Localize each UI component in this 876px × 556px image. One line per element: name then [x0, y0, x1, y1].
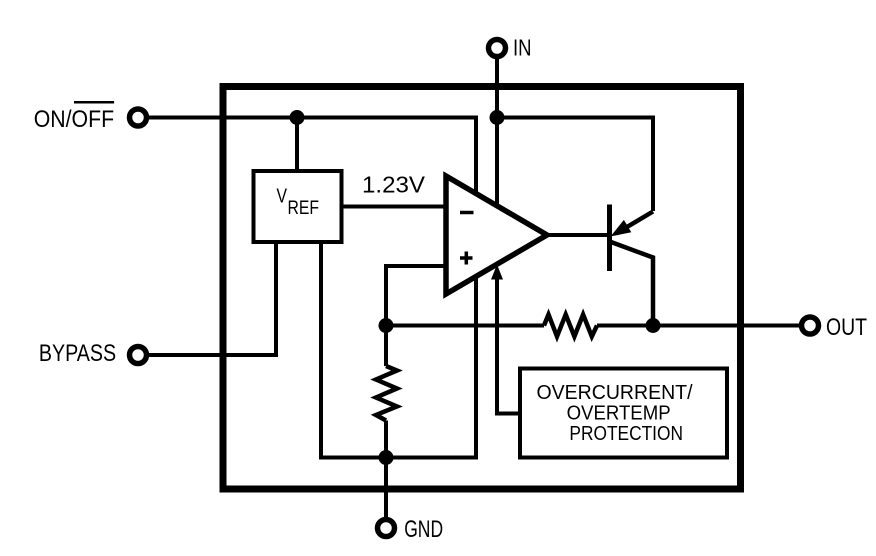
overline on OFF	[74, 101, 114, 104]
transistor Q1 base bar	[607, 205, 612, 272]
wire feedback node to resistor R2 top lead	[384, 326, 388, 367]
wire resistor R1 right lead to output node	[597, 324, 653, 328]
junction node ground	[379, 450, 394, 465]
outer IC boundary box	[223, 87, 741, 490]
svg-text:V: V	[277, 186, 288, 208]
terminal IN	[489, 40, 506, 57]
junction node at IN line	[490, 110, 505, 125]
transistor Q1 emitter arrowhead	[611, 220, 632, 237]
wire ground rail with risers to VREF lead and op-amp bottom	[321, 242, 476, 458]
op-amp U1 error amplifier	[446, 176, 547, 294]
junction node feedback	[379, 318, 394, 333]
terminal OUT	[802, 317, 819, 334]
wire IN node to transistor emitter	[497, 118, 653, 212]
transistor Q1 collector to output	[611, 242, 653, 326]
svg-text:ON/OFF: ON/OFF	[34, 106, 114, 133]
VREF block U2	[254, 171, 342, 242]
wire BYPASS to VREF bottom-left lead	[148, 242, 276, 355]
wire VREF output 1.23V to op-amp inverting input	[342, 205, 447, 209]
wire feedback node to resistor R1 left lead	[386, 324, 544, 328]
svg-text:1.23V: 1.23V	[362, 172, 426, 198]
wire resistor R2 bottom lead to ground node	[384, 421, 388, 458]
op-amp minus sign	[460, 211, 474, 215]
svg-text:REF: REF	[288, 198, 320, 219]
transistor Q1 PNP pass element	[547, 205, 653, 326]
svg-text:PROTECTION: PROTECTION	[569, 422, 683, 445]
wire op-amp noninverting input from feedback node	[386, 266, 446, 326]
arrow from protection block into op-amp	[491, 265, 503, 280]
wire ground node to GND terminal	[384, 458, 388, 518]
wire output node to OUT terminal	[653, 324, 800, 328]
svg-text:IN: IN	[513, 35, 532, 61]
protection block	[520, 369, 727, 458]
svg-text:BYPASS: BYPASS	[39, 340, 116, 367]
junction node output	[646, 318, 661, 333]
svg-text:OVERCURRENT/: OVERCURRENT/	[537, 381, 693, 404]
transistor Q1 emitter diagonal	[616, 212, 653, 234]
resistor R2 vertical	[376, 366, 397, 421]
op-amp plus sign	[460, 252, 473, 265]
wire protection block to op-amp arrow shaft	[497, 277, 520, 414]
transistor Q1 base wire from op-amp output	[547, 233, 608, 237]
terminal BYPASS	[130, 347, 147, 364]
wire VREF top lead	[295, 118, 299, 172]
terminal ON/OFF	[130, 109, 147, 126]
svg-text:GND: GND	[404, 516, 443, 543]
junction node at ON/OFF and VREF	[290, 110, 305, 125]
terminal GND	[378, 520, 395, 537]
wire ON/OFF input to internal node	[148, 118, 476, 197]
svg-text:OUT: OUT	[826, 314, 867, 341]
wire IN terminal drop	[495, 57, 499, 210]
resistor R1 horizontal	[544, 315, 597, 337]
